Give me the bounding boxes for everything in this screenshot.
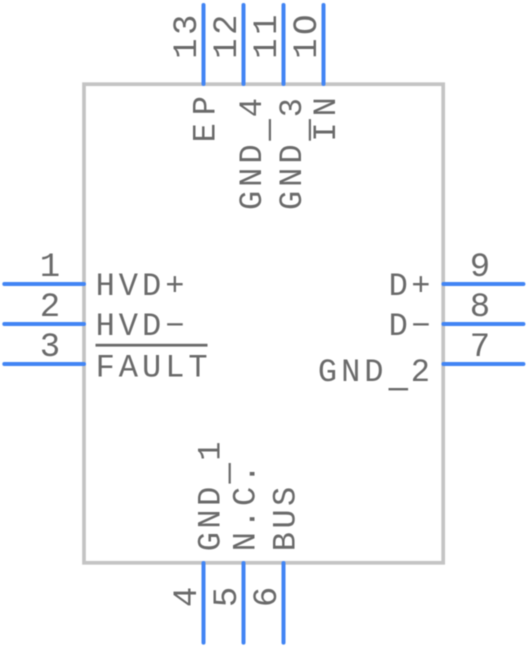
underscore of GND_2 bbox=[389, 388, 409, 390]
svg-text:13: 13 bbox=[169, 11, 207, 59]
svg-text:D−: D− bbox=[389, 308, 434, 345]
svg-text:EP: EP bbox=[188, 88, 225, 142]
underscore of GND_1 bbox=[229, 463, 231, 484]
svg-text:4: 4 bbox=[169, 583, 207, 607]
svg-text:GND 3: GND 3 bbox=[274, 94, 311, 210]
svg-text:D+: D+ bbox=[389, 268, 434, 305]
underscore of GND_3 bbox=[309, 119, 311, 141]
svg-text:11: 11 bbox=[249, 11, 287, 59]
svg-text:2: 2 bbox=[40, 289, 64, 327]
pin 11 wire (top) bbox=[282, 5, 286, 84]
pin 6 wire (bottom) bbox=[282, 563, 286, 643]
svg-text:IN: IN bbox=[308, 91, 345, 141]
pin 1 wire (left) bbox=[4, 282, 84, 286]
svg-text:1: 1 bbox=[40, 249, 64, 287]
svg-text:9: 9 bbox=[470, 249, 494, 287]
svg-text:HVD−: HVD− bbox=[96, 308, 189, 345]
underscore of GND_4 bbox=[269, 119, 271, 141]
overline of FAULT bbox=[96, 344, 208, 347]
svg-text:5: 5 bbox=[209, 583, 247, 607]
svg-text:8: 8 bbox=[470, 289, 494, 327]
svg-text:GND 4: GND 4 bbox=[234, 94, 271, 210]
pin 3 wire (left) bbox=[4, 362, 84, 366]
svg-text:6: 6 bbox=[249, 583, 287, 607]
svg-text:7: 7 bbox=[470, 329, 494, 367]
svg-text:12: 12 bbox=[209, 11, 247, 59]
IC body U1 bbox=[84, 84, 443, 563]
svg-text:N.C.: N.C. bbox=[228, 461, 265, 551]
pin 5 wire (bottom) bbox=[242, 563, 246, 643]
pin 9 wire (right) bbox=[443, 282, 523, 286]
svg-text:1O: 1O bbox=[289, 11, 327, 59]
svg-text:GND 2: GND 2 bbox=[318, 354, 434, 391]
svg-text:3: 3 bbox=[40, 329, 64, 367]
pin 13 wire (top) bbox=[202, 5, 206, 84]
pin 2 wire (left) bbox=[4, 322, 84, 326]
pin 8 wire (right) bbox=[443, 322, 523, 326]
svg-text:HVD+: HVD+ bbox=[96, 268, 189, 305]
pin 7 wire (right) bbox=[443, 362, 523, 366]
pin 12 wire (top) bbox=[242, 5, 246, 84]
svg-text:GND 1: GND 1 bbox=[192, 438, 229, 551]
svg-text:FAULT: FAULT bbox=[96, 349, 212, 386]
pin 4 wire (bottom) bbox=[202, 563, 206, 643]
pin 10 wire (top) bbox=[322, 5, 326, 84]
svg-text:BUS: BUS bbox=[268, 483, 305, 551]
